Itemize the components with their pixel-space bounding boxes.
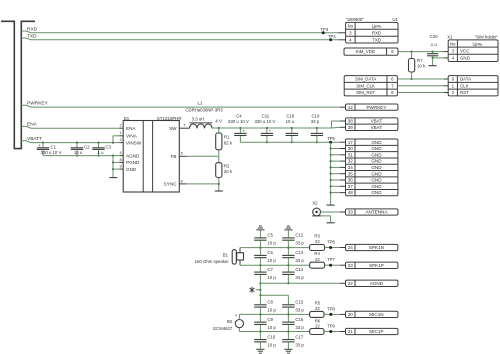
svg-text:C8: C8 bbox=[267, 300, 273, 305]
svg-text:C5: C5 bbox=[267, 233, 273, 238]
svg-text:38: 38 bbox=[348, 119, 354, 124]
wire stub to U1 pin 4 bbox=[339, 39, 346, 41]
svg-text:ANTENNA: ANTENNA bbox=[365, 210, 388, 215]
wire GND branch bbox=[331, 160, 340, 162]
svg-text:MIC1P: MIC1P bbox=[369, 329, 383, 334]
connector table U1 pin 20 MIC1N bbox=[346, 311, 398, 317]
wire GND branch bbox=[331, 185, 340, 187]
X2 shield terminal bbox=[312, 215, 321, 217]
pin 1 VINA bbox=[119, 135, 123, 137]
svg-text:C6: C6 bbox=[267, 250, 273, 255]
wire AGND column link bbox=[259, 283, 261, 295]
connector table X1 DATA/CLK/RST bbox=[448, 76, 498, 96]
wire GND branch bbox=[331, 154, 340, 156]
svg-text:D1: D1 bbox=[124, 116, 130, 121]
svg-text:B2: B2 bbox=[227, 319, 233, 324]
svg-text:R7: R7 bbox=[417, 58, 423, 63]
resistor R1 82k bbox=[218, 128, 220, 133]
svg-text:FB: FB bbox=[171, 154, 177, 159]
capacitor C17 33 p bbox=[287, 332, 289, 340]
capacitor C10 10 p bbox=[259, 332, 261, 340]
ground (antenna shield) bbox=[327, 222, 335, 224]
svg-text:21: 21 bbox=[348, 329, 354, 334]
svg-text:4 V: 4 V bbox=[215, 118, 222, 123]
svg-text:C14: C14 bbox=[295, 267, 303, 272]
svg-text:SIM_CLK: SIM_CLK bbox=[356, 83, 375, 88]
connector table U1 pin 12 PWRKEY bbox=[346, 104, 398, 110]
svg-text:82 k: 82 k bbox=[224, 140, 233, 145]
svg-text:R6: R6 bbox=[315, 318, 321, 323]
connector table U1 SIM_DATA/SIM_CLK/SIM_RST bbox=[344, 76, 397, 96]
svg-text:C2: C2 bbox=[84, 145, 90, 150]
svg-text:C7: C7 bbox=[267, 267, 273, 272]
svg-text:330 u 10 V: 330 u 10 V bbox=[255, 119, 276, 124]
regulator D1 ST1S10PHR bbox=[123, 121, 179, 193]
capacitor C5 10 p bbox=[254, 237, 266, 239]
svg-text:GND: GND bbox=[371, 159, 382, 164]
wire RXD bbox=[21, 31, 338, 33]
svg-text:33: 33 bbox=[348, 210, 354, 215]
svg-text:23: 23 bbox=[348, 263, 354, 268]
svg-text:C1: C1 bbox=[51, 145, 57, 150]
wire GND branch bbox=[331, 179, 340, 181]
capacitor C13 33 p bbox=[287, 248, 289, 255]
svg-text:R4: R4 bbox=[314, 251, 320, 256]
pin 5 FB bbox=[179, 155, 186, 157]
svg-text:33 p: 33 p bbox=[295, 308, 304, 313]
svg-text:24: 24 bbox=[348, 245, 354, 250]
wire SPK1P bbox=[240, 264, 310, 266]
svg-text:10 u: 10 u bbox=[74, 150, 83, 155]
connector table U1 pin 24 SPK1N bbox=[346, 244, 398, 250]
svg-text:39: 39 bbox=[348, 125, 354, 130]
svg-text:AGND: AGND bbox=[370, 281, 384, 286]
connector table U1 pin 21 MIC1P bbox=[346, 328, 398, 334]
svg-text:330 u 10 V: 330 u 10 V bbox=[41, 150, 62, 155]
resistor R7 10k bbox=[411, 52, 413, 59]
capacitor C11 330 u 10 V bbox=[266, 128, 268, 133]
svg-text:C16: C16 bbox=[295, 317, 303, 322]
svg-text:ENA: ENA bbox=[126, 126, 136, 131]
svg-text:C10: C10 bbox=[267, 334, 275, 339]
svg-text:30: 30 bbox=[348, 146, 354, 151]
svg-text:VBAT: VBAT bbox=[371, 119, 383, 124]
svg-text:TP5: TP5 bbox=[327, 136, 335, 141]
capacitor C8 10 p bbox=[254, 304, 266, 306]
svg-text:22: 22 bbox=[315, 306, 320, 311]
wire SIM_DATA bbox=[397, 78, 443, 80]
svg-text:"SIM holder": "SIM holder" bbox=[475, 35, 499, 40]
svg-text:33 p: 33 p bbox=[295, 325, 304, 330]
wire-bus bracket (left cable symbol) bbox=[1, 21, 35, 148]
svg-text:R1: R1 bbox=[224, 134, 230, 139]
capacitor C6 10 p bbox=[259, 248, 261, 255]
svg-text:RST: RST bbox=[460, 90, 469, 95]
svg-text:C3: C3 bbox=[106, 145, 112, 150]
wire stub to U1 pin 3 bbox=[339, 32, 346, 34]
resistor R4 22 bbox=[310, 262, 325, 268]
ground (speaker cap column 2) bbox=[284, 229, 292, 231]
svg-text:GND: GND bbox=[371, 190, 382, 195]
svg-text:VBAT: VBAT bbox=[371, 125, 383, 130]
svg-text:36: 36 bbox=[348, 178, 354, 183]
resistor R5 22 bbox=[310, 311, 324, 317]
svg-text:B1: B1 bbox=[223, 253, 229, 258]
svg-text:C15: C15 bbox=[295, 300, 303, 305]
capacitor C15 33 p bbox=[282, 304, 294, 306]
pin 2 ENA bbox=[119, 127, 123, 129]
svg-text:SYNC: SYNC bbox=[164, 182, 177, 187]
svg-text:12: 12 bbox=[348, 105, 354, 110]
ground (mic cap column) bbox=[256, 348, 264, 350]
svg-text:GND: GND bbox=[371, 146, 382, 151]
wire VINA branch bbox=[112, 136, 114, 143]
svg-text:ST1S10PHR: ST1S10PHR bbox=[157, 116, 182, 121]
svg-text:33 p: 33 p bbox=[295, 342, 304, 347]
svg-text:3.3 uH: 3.3 uH bbox=[192, 116, 205, 121]
svg-text:10 p: 10 p bbox=[267, 241, 276, 246]
connector table U1 pin 22 AGND bbox=[346, 280, 398, 286]
wire GND rail under caps bbox=[240, 141, 340, 143]
wire AGND bbox=[260, 282, 340, 284]
svg-text:31: 31 bbox=[348, 152, 354, 157]
pin 3 VINSW bbox=[119, 142, 123, 144]
svg-text:PWRKEY: PWRKEY bbox=[366, 105, 386, 110]
svg-text:33 p: 33 p bbox=[295, 241, 304, 246]
svg-text:20: 20 bbox=[348, 312, 354, 317]
svg-text:37: 37 bbox=[348, 184, 354, 189]
svg-text:R5: R5 bbox=[315, 300, 321, 305]
svg-text:"SIM900": "SIM900" bbox=[346, 17, 365, 22]
wire stub to pin 17 bbox=[340, 141, 346, 143]
wire TXD bbox=[21, 38, 338, 40]
svg-text:C20: C20 bbox=[430, 34, 439, 39]
resistor R2 20k bbox=[218, 156, 220, 162]
ground (mic cap column) bbox=[284, 348, 292, 350]
svg-text:MIC1N: MIC1N bbox=[369, 312, 383, 317]
wire 4V rail bbox=[212, 127, 332, 129]
svg-text:SIM_RST: SIM_RST bbox=[356, 90, 375, 95]
svg-text:GND: GND bbox=[460, 56, 470, 61]
wire mic column link bbox=[260, 294, 288, 296]
resistor R3 22 bbox=[310, 245, 325, 251]
svg-text:10 k: 10 k bbox=[417, 64, 426, 69]
capacitor C2 10u bbox=[76, 143, 78, 148]
svg-text:X2: X2 bbox=[312, 200, 318, 205]
svg-text:SPK1N: SPK1N bbox=[369, 245, 384, 250]
connector table U1 pins 38/39 VBAT bbox=[346, 118, 398, 131]
wire shield to ground bbox=[321, 216, 331, 222]
svg-text:X1: X1 bbox=[447, 35, 453, 40]
svg-text:TP6: TP6 bbox=[327, 239, 335, 244]
wire GND chain vertical bbox=[330, 142, 332, 204]
ground (C20) bbox=[429, 65, 437, 67]
capacitor C16 33 p bbox=[287, 314, 289, 321]
signal ground (AGND) bbox=[256, 289, 261, 291]
wire GND branch bbox=[331, 192, 340, 194]
wire SIM GND bbox=[433, 57, 444, 59]
svg-text:AGND: AGND bbox=[126, 153, 140, 158]
svg-text:+: + bbox=[235, 313, 238, 318]
svg-text:TP7: TP7 bbox=[327, 257, 335, 262]
wire MIC1P bbox=[239, 331, 309, 333]
svg-text:R2: R2 bbox=[224, 163, 230, 168]
test point TP9 bbox=[324, 331, 340, 333]
wire GND branch bbox=[331, 166, 340, 168]
wire PWRKEY bbox=[21, 105, 340, 107]
svg-text:C12: C12 bbox=[295, 233, 303, 238]
svg-text:48: 48 bbox=[348, 190, 354, 195]
svg-text:GND: GND bbox=[371, 171, 382, 176]
svg-text:GND: GND bbox=[126, 167, 137, 172]
svg-text:10 p: 10 p bbox=[267, 308, 276, 313]
connector table U1 GND pins bbox=[346, 139, 398, 196]
svg-text:GND: GND bbox=[371, 152, 382, 157]
svg-text:C17: C17 bbox=[295, 334, 303, 339]
capacitor C18 10 u bbox=[291, 128, 293, 133]
wire AGND rail to pin 4 bbox=[43, 155, 119, 157]
ground (regulator input) bbox=[109, 177, 117, 179]
svg-text:TP8: TP8 bbox=[327, 306, 335, 311]
svg-text:330 u 10 V: 330 u 10 V bbox=[228, 119, 249, 124]
svg-text:C13: C13 bbox=[295, 250, 303, 255]
svg-text:C11: C11 bbox=[262, 114, 270, 119]
svg-text:22: 22 bbox=[315, 239, 320, 244]
svg-text:SIM_VDD: SIM_VDD bbox=[356, 49, 376, 54]
wire GND branch bbox=[331, 148, 340, 150]
resistor R6 22 bbox=[310, 329, 324, 335]
svg-text:+: + bbox=[269, 128, 272, 133]
connector table U1 pin 23 SPK1P bbox=[346, 262, 398, 268]
capacitor C19 33 p bbox=[316, 128, 318, 133]
svg-text:22: 22 bbox=[348, 281, 354, 286]
svg-text:No: No bbox=[348, 24, 354, 29]
svg-text:22: 22 bbox=[315, 324, 320, 329]
pin 4 AGND bbox=[119, 155, 123, 157]
wire stub to pin 12 bbox=[340, 106, 346, 108]
ground (R2/SYNC) bbox=[215, 190, 223, 192]
svg-text:L1: L1 bbox=[197, 101, 203, 106]
svg-text:GND: GND bbox=[371, 165, 382, 170]
svg-text:RXD: RXD bbox=[372, 31, 381, 36]
svg-text:Цепь: Цепь bbox=[472, 41, 483, 46]
svg-text:ECM4627: ECM4627 bbox=[213, 326, 233, 331]
svg-text:SIM_DATA: SIM_DATA bbox=[355, 77, 376, 82]
svg-text:VINA: VINA bbox=[126, 133, 138, 138]
svg-text:TP3: TP3 bbox=[321, 27, 329, 32]
svg-text:SPK1P: SPK1P bbox=[369, 263, 384, 268]
svg-text:22: 22 bbox=[315, 257, 320, 262]
svg-text:VINSW: VINSW bbox=[126, 140, 142, 145]
pin 7 SW bbox=[179, 127, 189, 129]
svg-text:10 p: 10 p bbox=[267, 342, 276, 347]
pin 6 SYNC bbox=[179, 183, 186, 185]
svg-text:.1 u: .1 u bbox=[96, 150, 104, 155]
capacitor C9 10 p bbox=[259, 314, 261, 321]
svg-text:C4: C4 bbox=[236, 114, 242, 119]
svg-text:CDRHa038NP-3R3: CDRHa038NP-3R3 bbox=[185, 108, 223, 113]
wire antenna bbox=[321, 211, 341, 213]
svg-text:GND: GND bbox=[371, 140, 382, 145]
svg-text:GND: GND bbox=[371, 178, 382, 183]
svg-text:No: No bbox=[450, 41, 456, 46]
capacitor C7 10 p bbox=[259, 265, 261, 271]
svg-text:33 p: 33 p bbox=[295, 275, 304, 280]
connector table U1 pin 33 ANTENNA bbox=[346, 209, 398, 215]
test point TP8 bbox=[324, 313, 340, 315]
svg-text:17: 17 bbox=[348, 140, 354, 145]
svg-text:VBATT: VBATT bbox=[27, 136, 42, 142]
connector table U1 pin 9 SIM_VDD bbox=[344, 48, 398, 55]
svg-text:C19: C19 bbox=[311, 114, 319, 119]
svg-text:34: 34 bbox=[348, 165, 354, 170]
svg-text:U1: U1 bbox=[392, 17, 398, 22]
wire SIM_CLK bbox=[397, 85, 443, 87]
svg-text:C18: C18 bbox=[286, 114, 294, 119]
pin 9 GND bbox=[119, 168, 123, 170]
ground (speaker cap column 1) bbox=[256, 229, 264, 231]
svg-text:DATA: DATA bbox=[460, 77, 471, 82]
wire GND branch bbox=[331, 173, 340, 175]
wire ENA bbox=[21, 126, 119, 128]
svg-text:TP9: TP9 bbox=[327, 324, 335, 329]
svg-text:R3: R3 bbox=[314, 233, 320, 238]
capacitor C3 .1u bbox=[98, 143, 100, 148]
svg-text:20 k: 20 k bbox=[224, 169, 233, 174]
svg-text:GND: GND bbox=[371, 184, 382, 189]
svg-text:TP4: TP4 bbox=[328, 34, 336, 39]
capacitor C1 330u 10V bbox=[42, 143, 44, 148]
svg-text:32: 32 bbox=[348, 159, 354, 164]
test point TP7 bbox=[325, 264, 340, 266]
svg-text:.1 u: .1 u bbox=[430, 42, 438, 47]
wire VBATT bbox=[21, 141, 119, 143]
svg-text:33 p: 33 p bbox=[295, 258, 304, 263]
wire PGND/GND branch bbox=[112, 156, 114, 178]
svg-text:35: 35 bbox=[348, 171, 354, 176]
svg-text:10 p: 10 p bbox=[267, 275, 276, 280]
svg-text:CLK: CLK bbox=[460, 83, 469, 88]
svg-text:TXD: TXD bbox=[372, 37, 381, 42]
svg-text:+: + bbox=[38, 143, 41, 148]
svg-text:+: + bbox=[242, 128, 245, 133]
svg-text:Цепь: Цепь bbox=[372, 24, 383, 29]
svg-text:10 p: 10 p bbox=[267, 325, 276, 330]
capacitor C4 330 u 10 V bbox=[239, 128, 241, 133]
wire SPK1N bbox=[240, 247, 310, 249]
capacitor C14 33 p bbox=[287, 265, 289, 271]
svg-text:160 Ohm speaker: 160 Ohm speaker bbox=[195, 259, 230, 264]
capacitor C12 33 p bbox=[282, 237, 294, 239]
wire FB bbox=[187, 155, 219, 157]
svg-text:SW: SW bbox=[169, 126, 177, 131]
wire MIC1N bbox=[239, 313, 309, 315]
svg-text:ENA: ENA bbox=[27, 122, 38, 128]
wire SIM_RST bbox=[397, 92, 443, 94]
svg-text:VCC: VCC bbox=[460, 49, 469, 54]
svg-text:PWRKEY: PWRKEY bbox=[27, 100, 49, 106]
pin 8 PGND bbox=[119, 161, 123, 163]
svg-text:33 p: 33 p bbox=[311, 119, 320, 124]
svg-text:C9: C9 bbox=[267, 317, 273, 322]
svg-text:PGND: PGND bbox=[126, 160, 140, 165]
svg-text:10 u: 10 u bbox=[286, 119, 295, 124]
ground (GND chain) bbox=[327, 204, 335, 206]
wire SIM_VDD bbox=[398, 51, 444, 53]
test point TP6 bbox=[325, 247, 340, 249]
wire to VBAT pins bbox=[331, 121, 333, 128]
wire SYNC to ground bbox=[187, 183, 219, 185]
svg-text:10 p: 10 p bbox=[267, 258, 276, 263]
